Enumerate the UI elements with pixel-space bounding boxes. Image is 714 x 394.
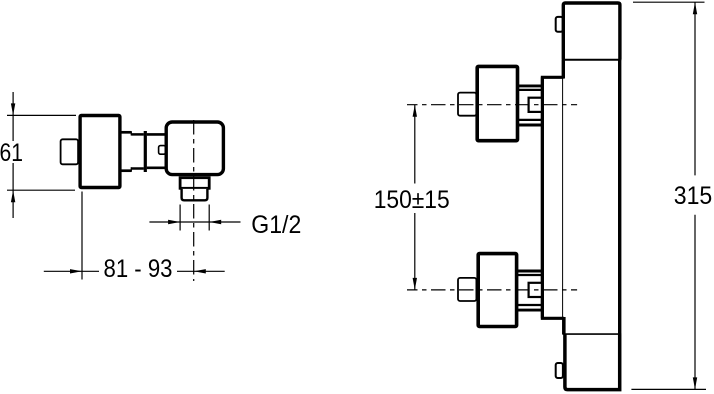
dimension 315: top extension line bbox=[633, 1, 705, 3]
dimension 61: top extension line bbox=[7, 114, 76, 116]
bottom handle: neck inner bottom line bbox=[517, 304, 543, 306]
svg-text:150±15: 150±15 bbox=[374, 186, 450, 214]
svg-text:61: 61 bbox=[0, 139, 23, 167]
top handle: neck outer top line bbox=[516, 84, 543, 87]
top handle: inner square bbox=[529, 98, 543, 112]
top block bottom line bbox=[562, 59, 621, 61]
shaft right thick edge bbox=[618, 60, 621, 334]
svg-text:315: 315 bbox=[674, 182, 713, 210]
top handle: neck inner top line bbox=[517, 89, 543, 91]
dimension 61: bottom extension line bbox=[7, 189, 75, 191]
outlet upper (wide) bbox=[180, 178, 209, 189]
dimension 81-93: left line with tail bbox=[44, 270, 99, 272]
main valve body (side view) bbox=[166, 122, 223, 175]
outlet lower (narrow, G1/2 thread) bbox=[182, 189, 208, 200]
top mounting tab bbox=[556, 17, 563, 32]
small tab on main body left bbox=[159, 146, 166, 155]
dimension 315: lower dimension line bbox=[694, 215, 696, 390]
neck mid bottom line bbox=[131, 167, 144, 170]
dimension 315: upper dimension line bbox=[694, 2, 696, 175]
dimension 81-93: extension line bbox=[81, 192, 83, 280]
dimension 81-93: right line with tail bbox=[177, 270, 225, 272]
dimension 61: arrowhead down bbox=[11, 103, 15, 115]
neck step verticals bbox=[130, 131, 132, 172]
dimension 61: dimension line upper tail bbox=[12, 92, 14, 141]
top handle: neck inner bottom line bbox=[517, 119, 543, 121]
top handle: neck outer bottom line bbox=[516, 124, 543, 127]
dimension 61: arrowhead up bbox=[11, 190, 15, 202]
dimension G1/2: arrowhead left bbox=[209, 220, 221, 224]
top block bbox=[563, 3, 620, 60]
dimension 315: arrowhead up bbox=[693, 2, 697, 14]
center line bottom handle (horizontal) bbox=[407, 289, 577, 291]
wall column redraw (over handle necks) bbox=[541, 77, 544, 318]
shaft thick edge above bottom block bbox=[562, 317, 565, 335]
bottom handle: inner square bbox=[529, 283, 543, 297]
bottom mounting tab bbox=[556, 363, 563, 378]
bottom block top line bbox=[563, 333, 621, 335]
bottom handle: body bbox=[478, 254, 516, 327]
center line (vertical, left view) bbox=[193, 120, 195, 281]
shaft left thin edge bbox=[562, 60, 564, 334]
shaft thick edge below top block bbox=[562, 60, 565, 79]
dimension 81-93: arrowhead left bbox=[194, 269, 206, 273]
bottom handle: knob bbox=[458, 278, 476, 301]
dimension G1/2: left extension line bbox=[179, 205, 181, 231]
bottom handle: neck outer bottom line bbox=[516, 309, 543, 312]
neck section2 top line bbox=[147, 133, 166, 136]
top handle: knob bbox=[458, 93, 476, 116]
handle knob (side view) bbox=[61, 139, 79, 164]
wall column left edge bbox=[542, 77, 564, 318]
dimension 150±15: lower dimension line bbox=[414, 213, 416, 290]
dimension 150±15: arrowhead up bbox=[413, 105, 417, 117]
neck divider flange bbox=[144, 131, 147, 172]
dimension 61: dimension line lower tail bbox=[12, 163, 14, 218]
neck collar bottom line bbox=[120, 169, 132, 172]
dimension G1/2: arrowhead right bbox=[168, 220, 180, 224]
dimension 315: bottom extension line bbox=[631, 388, 706, 390]
center line top handle (horizontal) bbox=[407, 104, 577, 106]
dimension 81-93: arrowhead right bbox=[70, 269, 82, 273]
svg-text:G1/2: G1/2 bbox=[251, 211, 301, 239]
dimension 150±15: arrowhead down bbox=[413, 278, 417, 290]
neck section2 bottom line bbox=[147, 167, 166, 170]
bottom handle: neck outer top line bbox=[516, 270, 543, 273]
bottom block bbox=[565, 334, 620, 390]
svg-text:81 - 93: 81 - 93 bbox=[104, 255, 173, 283]
dimension 150±15: upper dimension line bbox=[414, 105, 416, 184]
top handle: body bbox=[477, 66, 517, 140]
neck mid top line bbox=[131, 133, 144, 136]
neck collar top line bbox=[120, 131, 132, 134]
bottom handle: neck inner top line bbox=[517, 274, 543, 276]
dimension G1/2: right extension line bbox=[208, 205, 210, 231]
dimension 315: arrowhead down bbox=[693, 377, 697, 389]
handle body (side view) bbox=[80, 116, 120, 188]
dimension G1/2: dimension line bbox=[149, 221, 240, 223]
